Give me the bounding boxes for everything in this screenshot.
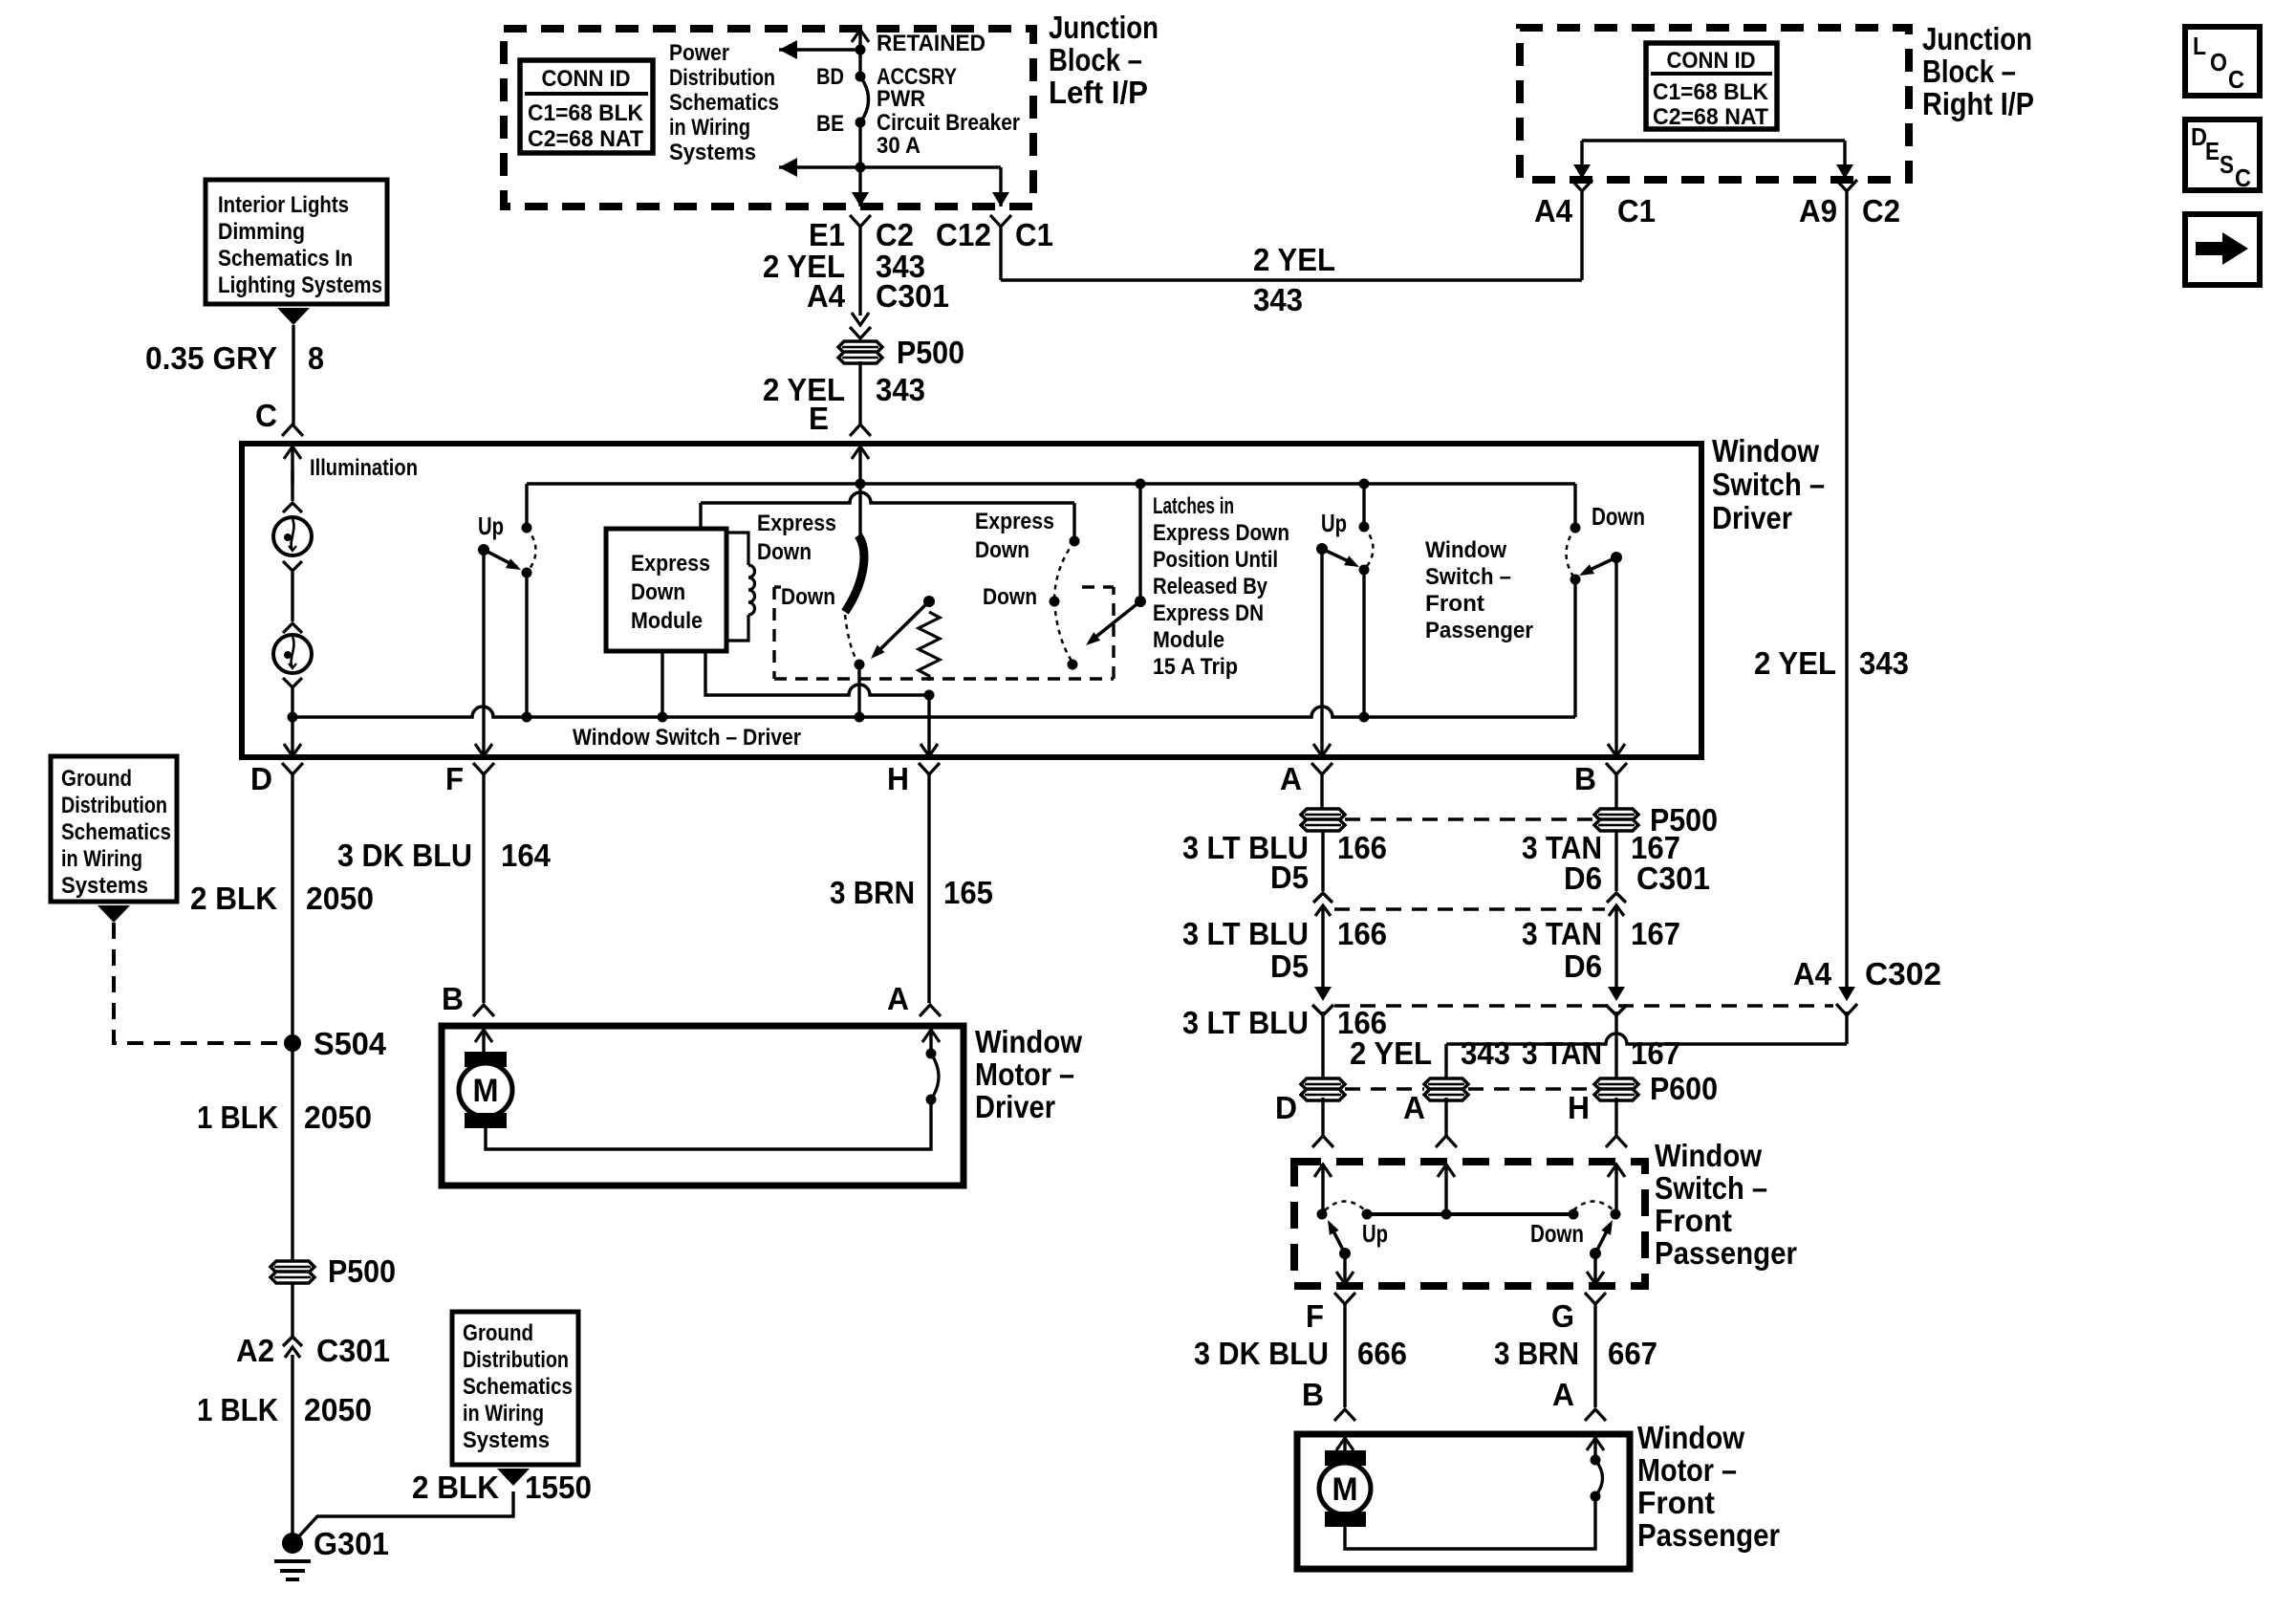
svg-text:C1: C1 (1617, 193, 1656, 229)
svg-text:Window: Window (1425, 537, 1506, 563)
arm from 15A trip to passenger express contact (1094, 601, 1140, 639)
svg-text:Switch –: Switch – (1425, 564, 1511, 590)
svg-text:Right I/P: Right I/P (1922, 86, 2034, 121)
connector C301 on A wire (fork+arrow up) (1313, 893, 1332, 903)
connector C301 pass-through on E wire (arrow+fork down) (852, 313, 869, 325)
svg-text:Front: Front (1425, 591, 1484, 617)
svg-text:Down: Down (631, 579, 685, 605)
pin forks under driver switch box (282, 763, 303, 774)
arrow legend box (2185, 214, 2260, 285)
wire: branch to power distribution (lower left arrow) (779, 165, 860, 168)
node bus at passenger up switch contact (1359, 712, 1370, 723)
svg-text:Motor –: Motor – (1637, 1452, 1737, 1488)
off-page triangle below ground box 2 (497, 1469, 530, 1486)
svg-text:C2: C2 (1862, 193, 1900, 229)
svg-text:A: A (1552, 1377, 1574, 1412)
passenger switch center bar (1367, 1212, 1573, 1216)
wire: right wire continues to passenger switch A pin (1845, 1012, 1848, 1044)
dashed travel arcs (1325, 1202, 1365, 1211)
svg-text:D: D (1275, 1090, 1297, 1125)
wire A from pivot down/exit (1320, 549, 1323, 756)
svg-text:Systems: Systems (61, 873, 148, 899)
svg-text:C302: C302 (1865, 956, 1941, 991)
svg-text:P600: P600 (1650, 1071, 1718, 1106)
svg-text:Block –: Block – (1922, 54, 2016, 89)
node bus at driver up switch (522, 712, 532, 723)
svg-text:Driver: Driver (975, 1089, 1055, 1124)
svg-text:Interior Lights: Interior Lights (218, 192, 349, 218)
switch arm driver-down (1611, 552, 1622, 563)
wire: motor bottom loop (486, 1099, 931, 1149)
wire B from pivot down/exit (1614, 557, 1617, 756)
circuit breaker in driver motor (926, 1095, 937, 1105)
svg-text:3 LT BLU: 3 LT BLU (1182, 916, 1309, 951)
svg-text:Systems: Systems (463, 1427, 550, 1453)
svg-text:343: 343 (1253, 282, 1303, 317)
svg-text:167: 167 (1631, 916, 1680, 951)
svg-text:Position Until: Position Until (1153, 547, 1278, 573)
svg-text:D6: D6 (1564, 860, 1602, 896)
svg-text:C: C (2228, 65, 2244, 94)
svg-text:Dimming: Dimming (218, 219, 305, 245)
svg-text:Released By: Released By (1153, 574, 1268, 599)
contacts (1317, 1209, 1328, 1220)
svg-text:2 YEL: 2 YEL (1253, 242, 1335, 277)
resistor R (express down) (923, 596, 935, 607)
node: junction dot upper (856, 45, 866, 55)
svg-text:2 YEL: 2 YEL (763, 372, 845, 407)
svg-text:Up: Up (1321, 509, 1347, 537)
svg-text:F: F (445, 761, 464, 796)
pin forks under passenger switch (1334, 1293, 1355, 1304)
svg-text:O: O (2210, 48, 2227, 76)
svg-text:Express: Express (975, 509, 1054, 534)
svg-text:Lighting Systems: Lighting Systems (218, 272, 382, 298)
lamp L2 (273, 635, 312, 673)
svg-text:A: A (1403, 1090, 1425, 1125)
svg-text:343: 343 (1859, 645, 1909, 681)
svg-text:Switch –: Switch – (1655, 1170, 1767, 1206)
svg-text:D5: D5 (1270, 860, 1309, 895)
connector P600 row (1301, 1078, 1345, 1090)
svg-text:Junction: Junction (1049, 10, 1159, 45)
svg-text:S: S (2220, 150, 2234, 179)
wire B seg2: 3 TAN 167 / D6 (1614, 905, 1617, 991)
Express Down Module box (606, 529, 726, 651)
labels 3 LT BLU 166 / D5 (seg1) (1321, 830, 1324, 891)
arrow into motor at B (passenger) (1343, 1437, 1346, 1450)
Window Switch - Driver box (242, 444, 1701, 757)
svg-text:L: L (2193, 32, 2206, 60)
svg-text:30 A: 30 A (877, 133, 921, 159)
svg-text:166: 166 (1337, 830, 1387, 865)
svg-text:CONN ID: CONN ID (1667, 48, 1756, 74)
off-page triangle below interior lights box (277, 308, 310, 325)
svg-text:H: H (887, 761, 909, 796)
svg-text:Ground: Ground (61, 766, 132, 792)
svg-text:Latches in: Latches in (1153, 493, 1234, 519)
switch arm passenger-up (1316, 543, 1328, 555)
LOC legend box (2185, 27, 2260, 96)
svg-text:166: 166 (1337, 916, 1387, 951)
svg-text:3 BRN: 3 BRN (830, 875, 915, 910)
svg-text:Switch –: Switch – (1712, 467, 1825, 502)
svg-text:Schematics: Schematics (61, 819, 171, 845)
svg-text:A9: A9 (1799, 193, 1837, 229)
svg-text:C1=68 BLK: C1=68 BLK (528, 100, 644, 126)
svg-text:343: 343 (876, 372, 925, 407)
svg-text:C301: C301 (316, 1333, 390, 1368)
svg-text:666: 666 (1357, 1336, 1407, 1371)
dashed travel to down contact (845, 615, 856, 660)
wire: 2 YEL 343 right side vertical (A9/C2 down) (1836, 180, 1857, 191)
svg-text:C12: C12 (936, 217, 991, 252)
svg-text:E1: E1 (809, 217, 845, 252)
connector P500 row (passenger) (1301, 809, 1345, 820)
svg-text:P500: P500 (897, 335, 964, 370)
svg-text:Down: Down (983, 584, 1037, 610)
svg-text:15 A Trip: 15 A Trip (1153, 654, 1238, 680)
svg-text:Junction: Junction (1922, 21, 2032, 56)
svg-text:Power: Power (669, 40, 729, 66)
svg-text:E: E (809, 401, 829, 436)
svg-text:D: D (250, 761, 272, 796)
svg-text:Module: Module (631, 608, 703, 634)
svg-text:A2: A2 (236, 1333, 274, 1368)
svg-text:RETAINED: RETAINED (877, 31, 986, 56)
ground bus inside driver switch (292, 707, 1575, 717)
wire: main exit down (E1/C2) (858, 167, 861, 207)
svg-text:Express: Express (631, 551, 710, 577)
svg-text:Express: Express (757, 511, 836, 536)
splice S504 (284, 1034, 301, 1052)
svg-text:2 BLK: 2 BLK (190, 881, 277, 916)
wire A seg3: 3 LT BLU 166 (1321, 1012, 1324, 1079)
svg-text:Schematics: Schematics (669, 90, 779, 116)
svg-text:Window: Window (1712, 433, 1819, 468)
ground G301 (282, 1533, 303, 1554)
right arm (G) (1590, 1248, 1601, 1259)
svg-text:Ground: Ground (463, 1320, 533, 1346)
Interior Lights Dimming box (206, 180, 387, 304)
svg-text:A: A (1280, 761, 1302, 796)
right junction block dashed box: Junction Block - Right I/P (1520, 28, 1909, 180)
svg-text:H: H (1568, 1090, 1590, 1125)
node: bus at illumination (288, 712, 298, 723)
svg-text:C2=68 NAT: C2=68 NAT (528, 126, 643, 152)
svg-text:F: F (1306, 1298, 1324, 1334)
wire 2 BLK 1550 to ground dist (296, 1491, 513, 1539)
illumination lamp circuit (C wire down) (291, 470, 293, 501)
node BD (856, 72, 866, 82)
CONN ID table (left) (520, 60, 653, 153)
wire: RETAINED ACCSRY PWR feed (vertical in left junction) (858, 30, 861, 76)
arrow into driver box at E (858, 446, 861, 484)
arrows into passenger switch (1321, 1164, 1324, 1214)
connector P500 grommet on E wire (838, 341, 882, 353)
svg-text:C1=68 BLK: C1=68 BLK (1653, 79, 1769, 105)
svg-text:1550: 1550 (525, 1469, 592, 1505)
passenger express down switch (1072, 503, 1075, 541)
svg-text:Module: Module (1153, 627, 1224, 653)
svg-text:167: 167 (1631, 1035, 1680, 1071)
svg-text:2 YEL: 2 YEL (1350, 1035, 1432, 1071)
15 A trip link wire (1138, 484, 1141, 601)
svg-text:P500: P500 (328, 1253, 396, 1289)
svg-text:Down: Down (975, 537, 1029, 563)
node rail at E feed (856, 479, 866, 490)
small dashed rect express down latch region (772, 587, 775, 679)
mechanical arm from resistor top to express contact (877, 601, 929, 652)
motor M passenger (1325, 1450, 1366, 1466)
svg-text:in Wiring: in Wiring (669, 115, 750, 141)
svg-text:165: 165 (943, 875, 993, 910)
svg-text:BE: BE (816, 111, 844, 137)
svg-text:E: E (2205, 137, 2220, 165)
express switch blade (thick arc) (845, 535, 864, 612)
circuit breaker CB (RETAINED ACCSRY PWR 30A) (860, 76, 869, 122)
wire B seg3: 3 TAN 167 (1614, 1012, 1617, 1079)
C301 dashed line (1334, 907, 1605, 910)
svg-text:Passenger: Passenger (1425, 618, 1533, 643)
Ground Distribution box (bottom) (452, 1312, 578, 1465)
wire A seg2: 3 LT BLU 166 / D5 (1321, 905, 1324, 991)
svg-text:in Wiring: in Wiring (61, 846, 142, 872)
connector C301 on B wire (fork+arrow up) (1607, 893, 1626, 903)
svg-text:C1: C1 (1015, 217, 1053, 252)
svg-text:CONN ID: CONN ID (542, 66, 631, 92)
left junction block dashed box: Junction Block - Left I/P (504, 29, 1033, 207)
svg-text:Illumination: Illumination (310, 455, 418, 481)
wire: branch right to C12 exit (860, 165, 1001, 168)
svg-text:Distribution: Distribution (463, 1347, 569, 1373)
wire G: 3 BRN 667 (1593, 1304, 1596, 1407)
svg-text:2050: 2050 (306, 881, 374, 916)
svg-text:1 BLK: 1 BLK (197, 1392, 278, 1427)
wire: C12 to right junction (2 YEL 343 horizontal) (990, 215, 1011, 227)
svg-text:in Wiring: in Wiring (463, 1401, 544, 1426)
power rail inside driver switch (527, 482, 1575, 486)
svg-text:3 DK BLU: 3 DK BLU (1194, 1336, 1329, 1371)
node: junction dot lower (856, 163, 866, 173)
Window Motor - Front Passenger box (1297, 1434, 1630, 1569)
wire below P500 to window switch (858, 361, 861, 425)
svg-text:Down: Down (1592, 502, 1645, 531)
svg-text:3 TAN: 3 TAN (1522, 1035, 1602, 1071)
svg-text:1 BLK: 1 BLK (197, 1099, 278, 1135)
svg-text:Distribution: Distribution (61, 793, 167, 818)
node passenger express contact (1068, 660, 1078, 670)
wire: internal bus A4 to A9 in right junction (1582, 139, 1845, 142)
switch arm driver (478, 544, 489, 555)
svg-text:M: M (1332, 1471, 1358, 1508)
svg-text:C: C (2235, 163, 2251, 192)
pin fork C into driver switch (282, 425, 303, 436)
svg-text:Window: Window (1637, 1420, 1744, 1455)
svg-text:343: 343 (1461, 1035, 1510, 1071)
svg-text:G: G (1551, 1298, 1574, 1334)
node bus at express module (658, 712, 668, 723)
svg-text:3 LT BLU: 3 LT BLU (1182, 1005, 1309, 1040)
svg-text:M: M (473, 1073, 499, 1109)
driver express down switch feed (858, 484, 861, 536)
svg-text:D5: D5 (1270, 948, 1309, 984)
wire D down: 2 BLK 2050 (291, 774, 293, 1043)
svg-text:2 YEL: 2 YEL (1754, 645, 1836, 681)
wire: BE down to branch node (858, 122, 861, 167)
wire: S504 down 1 BLK 2050 (291, 1043, 293, 1264)
off-page triangle below ground box (97, 905, 130, 923)
svg-text:Window: Window (1655, 1138, 1762, 1173)
svg-text:C: C (255, 398, 277, 433)
node rail at 15A trip link (1136, 479, 1146, 490)
svg-text:Down: Down (781, 584, 835, 610)
svg-text:A: A (887, 981, 909, 1016)
lamp L1 (273, 517, 312, 555)
wire A down to P500 (1320, 774, 1323, 810)
svg-text:Down: Down (1530, 1219, 1584, 1248)
svg-text:A4: A4 (1793, 956, 1832, 991)
node express down contact (855, 660, 865, 670)
motor M driver (465, 1052, 507, 1067)
wire H exit (927, 695, 930, 756)
svg-text:A4: A4 (1534, 193, 1573, 229)
left arm (F) (1339, 1248, 1351, 1259)
C302 dashed line (1334, 1004, 1833, 1007)
node BE (856, 118, 866, 128)
node bus at express contact (855, 712, 865, 723)
wire: module pin to ground bus (661, 651, 663, 717)
svg-text:Distribution: Distribution (669, 65, 775, 91)
connector pin fork below junction (C2 pin) (850, 215, 871, 227)
Window Switch - Front Passenger dashed box (1294, 1162, 1645, 1286)
Window Motor - Driver box (442, 1026, 964, 1186)
DESC legend box (2185, 120, 2260, 190)
svg-text:PWR: PWR (877, 86, 925, 112)
svg-text:Up: Up (1362, 1219, 1388, 1248)
svg-text:Left I/P: Left I/P (1049, 75, 1148, 110)
svg-text:A4: A4 (807, 278, 846, 314)
pin fork E into driver switch (850, 425, 871, 436)
svg-text:3 DK BLU: 3 DK BLU (337, 838, 472, 873)
arrow into motor at B (482, 1029, 485, 1052)
wire: module pin to resistor bottom link (705, 651, 929, 695)
connector C302 cluster on B wire (1608, 987, 1625, 1001)
wire H to driver motor: 3 BRN 165 (927, 774, 930, 1003)
svg-text:Passenger: Passenger (1655, 1235, 1797, 1271)
svg-text:Up: Up (478, 512, 504, 540)
CONN ID table (right) (1646, 43, 1777, 129)
module shadow box + relay coil (726, 533, 748, 565)
svg-text:C2: C2 (876, 217, 914, 252)
svg-text:2 BLK: 2 BLK (412, 1469, 499, 1505)
Ground Distribution box (left) (51, 756, 177, 902)
svg-text:Window: Window (975, 1024, 1082, 1059)
svg-text:Schematics: Schematics (463, 1374, 573, 1400)
svg-text:G301: G301 (314, 1526, 389, 1561)
svg-text:0.35 GRY: 0.35 GRY (145, 340, 277, 376)
svg-text:Express Down: Express Down (1153, 520, 1289, 546)
svg-text:Front: Front (1655, 1203, 1732, 1238)
svg-text:Window Switch – Driver: Window Switch – Driver (573, 725, 801, 751)
arrow into motor at A (passenger) (1593, 1437, 1596, 1460)
svg-text:S504: S504 (314, 1026, 387, 1061)
connector C302 on right wire (arrow+fork down) (1838, 987, 1855, 1001)
svg-text:Circuit Breaker: Circuit Breaker (877, 110, 1020, 136)
wire B down to P500 (1614, 774, 1617, 810)
svg-text:D6: D6 (1564, 948, 1602, 984)
svg-text:Block –: Block – (1049, 42, 1142, 77)
dashed link to S504 (114, 923, 282, 1043)
svg-text:BD: BD (816, 64, 844, 90)
svg-text:B: B (442, 981, 464, 1016)
labels 3 TAN 167 / D6 C301 (seg1) (1614, 830, 1617, 891)
rail2: module to express contacts (701, 492, 1074, 503)
svg-text:B: B (1302, 1377, 1324, 1412)
connector P500 on ground wire (271, 1261, 314, 1273)
wire segment E1/C2 to P500 (858, 227, 861, 316)
svg-text:C2=68 NAT: C2=68 NAT (1653, 104, 1768, 130)
svg-text:667: 667 (1608, 1336, 1657, 1371)
wire: passenger motor bottom loop (1345, 1496, 1595, 1549)
svg-text:Front: Front (1637, 1485, 1715, 1520)
wire: illumination to D exit (291, 717, 293, 756)
wire: branch to power distribution (upper left arrow) (779, 48, 860, 51)
wire F from pivot down/exit (482, 550, 485, 756)
svg-text:B: B (1574, 761, 1596, 796)
svg-text:8: 8 (308, 340, 324, 376)
arrow into driver box at C (291, 446, 293, 484)
svg-text:Down: Down (757, 539, 812, 565)
wire F: 3 DK BLU 666 (1343, 1304, 1346, 1407)
svg-text:Systems: Systems (669, 140, 756, 165)
svg-text:C301: C301 (876, 278, 949, 314)
connector C302 cluster on A wire (1314, 987, 1332, 1001)
svg-text:2050: 2050 (304, 1392, 372, 1427)
wires into passenger switch (1321, 1098, 1324, 1136)
svg-text:Driver: Driver (1712, 500, 1792, 535)
node resistor bottom (924, 690, 935, 701)
svg-text:Passenger: Passenger (1637, 1517, 1780, 1553)
node rail at passenger up contact (1359, 479, 1370, 490)
svg-text:Motor –: Motor – (975, 1056, 1074, 1092)
wire F to driver motor: 3 DK BLU 164 (482, 774, 485, 1003)
svg-text:3 TAN: 3 TAN (1522, 916, 1602, 951)
svg-text:2050: 2050 (304, 1099, 372, 1135)
circuit breaker in passenger motor (1591, 1491, 1601, 1502)
svg-text:3 BRN: 3 BRN (1494, 1336, 1579, 1371)
svg-text:C301: C301 (1636, 860, 1710, 896)
connector C301 pass-through (A2) (283, 1337, 302, 1346)
svg-text:164: 164 (501, 838, 552, 873)
svg-text:Express DN: Express DN (1153, 600, 1264, 626)
wire: 0.35 GRY 8 down to driver switch C pin (292, 325, 294, 425)
svg-text:Schematics In: Schematics In (218, 246, 353, 272)
arrow into motor at A (929, 1029, 932, 1054)
